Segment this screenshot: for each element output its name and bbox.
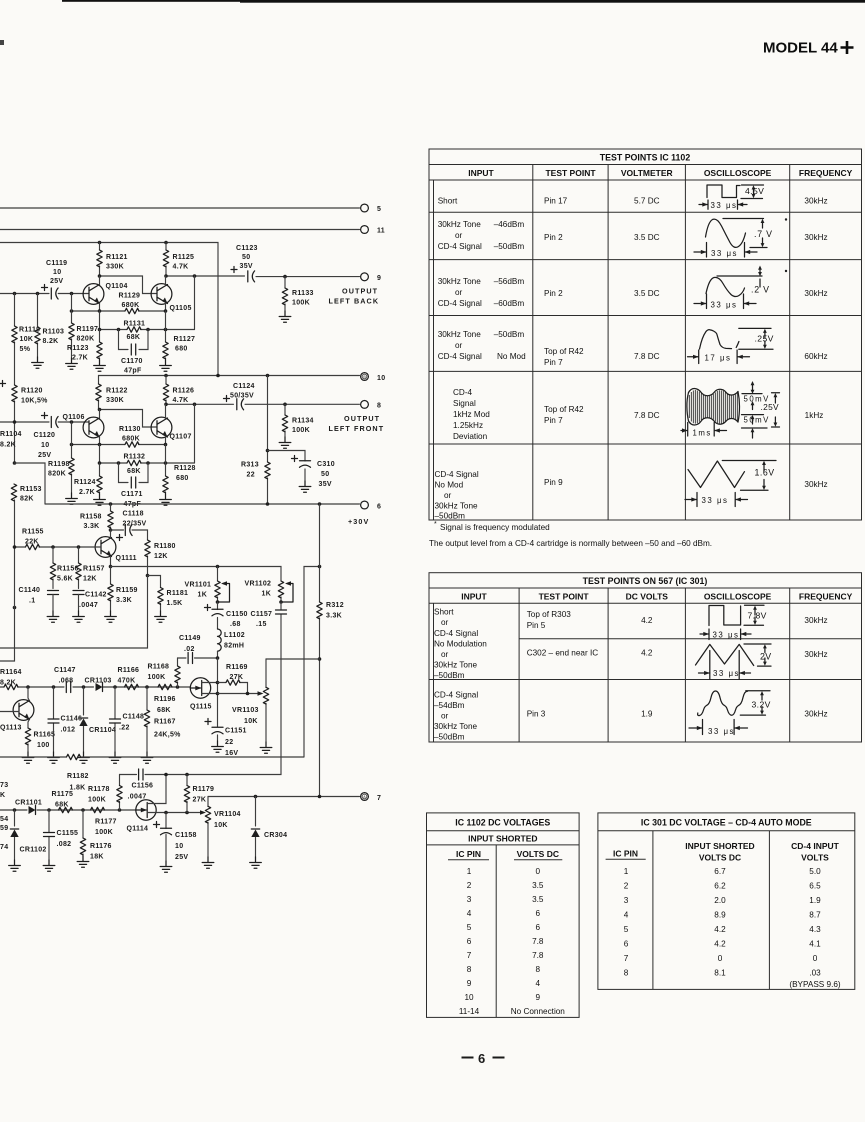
- svg-text:30kHz: 30kHz: [804, 650, 827, 659]
- resistor R1179: [184, 775, 214, 813]
- transistor Q1115 (FET): [190, 658, 218, 727]
- svg-text:VR1103: VR1103: [232, 707, 259, 714]
- svg-text:–60dBm: –60dBm: [494, 299, 525, 308]
- svg-text:Deviation: Deviation: [453, 432, 488, 441]
- svg-text:0: 0: [536, 867, 541, 876]
- ground under R1167: [141, 752, 153, 763]
- wire feedback2 vertical: [194, 404, 196, 463]
- svg-text:2.0: 2.0: [714, 896, 726, 905]
- svg-text:VOLTS DC: VOLTS DC: [517, 849, 559, 859]
- svg-text:4.2: 4.2: [714, 925, 726, 934]
- svg-text:100K: 100K: [148, 674, 166, 681]
- svg-text:Q1114: Q1114: [127, 826, 149, 833]
- svg-text:820K: 820K: [48, 471, 66, 478]
- inductor L1102: [218, 629, 245, 658]
- wire VR1103 to +30V vertical: [266, 658, 320, 660]
- svg-text:LEFT FRONT: LEFT FRONT: [329, 424, 385, 433]
- svg-text:6: 6: [377, 504, 381, 511]
- ground under C1148: [109, 752, 121, 763]
- svg-text:R313: R313: [241, 462, 259, 469]
- svg-text:C1147: C1147: [54, 667, 76, 674]
- node CR1104 tap: [82, 685, 86, 689]
- svg-text:27K: 27K: [230, 674, 244, 681]
- node R313 bottom: [266, 502, 270, 506]
- capacitor C1123: [231, 245, 258, 282]
- ground under CR1102: [9, 860, 21, 871]
- svg-text:17 μs: 17 μs: [705, 353, 732, 362]
- svg-text:No Modulation: No Modulation: [434, 640, 487, 649]
- svg-text:2V: 2V: [760, 652, 772, 662]
- svg-text:3.5: 3.5: [532, 895, 544, 904]
- node VR1103 feed: [318, 657, 322, 661]
- svg-text:R1181: R1181: [167, 590, 189, 597]
- svg-text:Pin 7: Pin 7: [544, 416, 563, 425]
- svg-text:10K,5%: 10K,5%: [21, 398, 48, 405]
- resistor R1153 on left rail: [0, 484, 42, 661]
- svg-text:3.5 DC: 3.5 DC: [634, 233, 660, 242]
- ground under C1151: [212, 741, 224, 752]
- svg-text:25V: 25V: [38, 452, 51, 459]
- node bus1 joins bus2: [216, 374, 220, 378]
- svg-text:Top of R42: Top of R42: [544, 405, 584, 414]
- svg-text:R1120: R1120: [21, 388, 43, 395]
- svg-text:30kHz Tone: 30kHz Tone: [435, 502, 479, 511]
- svg-text:–50dBm: –50dBm: [435, 512, 466, 521]
- svg-text:22: 22: [225, 739, 233, 746]
- svg-text:R1122: R1122: [106, 388, 128, 395]
- svg-text:.012: .012: [61, 727, 76, 734]
- node R1169 tap: [216, 681, 220, 685]
- svg-text:R1175: R1175: [52, 791, 74, 798]
- capacitor C1157: [187, 602, 287, 775]
- potentiometer VR1103: [232, 659, 269, 742]
- resistor R1132 line: [98, 454, 195, 476]
- resistor R1124: [74, 463, 102, 496]
- svg-text:Q1106: Q1106: [63, 414, 85, 421]
- svg-text:100: 100: [37, 742, 50, 749]
- svg-text:CD-4 Signal: CD-4 Signal: [438, 299, 482, 308]
- svg-text:CD-4 Signal: CD-4 Signal: [438, 352, 482, 361]
- svg-text:1K: 1K: [262, 591, 272, 598]
- resistor R1167: [144, 687, 181, 752]
- wire feedback1 vertical: [194, 276, 196, 330]
- svg-text:Pin 2: Pin 2: [544, 233, 563, 242]
- svg-text:Pin 2: Pin 2: [544, 289, 563, 298]
- node on +30V vertical: [318, 565, 322, 569]
- svg-text:–56dBm: –56dBm: [494, 277, 525, 286]
- capacitor C1142: [73, 591, 107, 612]
- node bus1/R1121: [98, 241, 102, 245]
- svg-text:–50dBm: –50dBm: [434, 671, 465, 680]
- node rail/base1: [13, 292, 17, 296]
- svg-text:or: or: [441, 618, 449, 627]
- resistor R1123: [67, 330, 102, 362]
- node feedback tap: [193, 274, 197, 278]
- svg-text:330K: 330K: [106, 397, 124, 404]
- svg-text:60kHz: 60kHz: [804, 352, 827, 361]
- node R1198/base2: [70, 420, 74, 424]
- wire output left-front line: [166, 403, 360, 405]
- svg-text:IC 1102 DC VOLTAGES: IC 1102 DC VOLTAGES: [455, 818, 550, 828]
- resistor R1175: [52, 791, 74, 813]
- svg-text:.082: .082: [57, 841, 72, 848]
- terminal 7: [361, 793, 369, 801]
- svg-text:C1155: C1155: [57, 830, 79, 837]
- svg-text:Signal: Signal: [453, 399, 476, 408]
- diode CR304: [251, 797, 287, 858]
- svg-text:1K: 1K: [198, 592, 208, 599]
- svg-text:25V: 25V: [50, 278, 63, 285]
- row 3 waveform: small sine .2V 33us: [694, 266, 762, 309]
- svg-text:47pF: 47pF: [124, 368, 142, 375]
- svg-text:OUTPUT: OUTPUT: [342, 287, 378, 296]
- node R1179 top: [185, 773, 189, 777]
- terminal 9: [361, 273, 369, 281]
- svg-text:12K: 12K: [154, 553, 168, 560]
- svg-text:C1140: C1140: [19, 587, 41, 594]
- svg-text:6: 6: [536, 909, 541, 918]
- svg-text:IC PIN: IC PIN: [613, 849, 638, 859]
- transistor Q1105: [151, 276, 192, 312]
- svg-text:IC 301 DC VOLTAGE – CD-4 AUTO: IC 301 DC VOLTAGE – CD-4 AUTO MODE: [641, 818, 812, 828]
- svg-text:R1156: R1156: [57, 566, 79, 573]
- node +30V vertical joins: [318, 795, 322, 799]
- ground under R1133: [279, 311, 291, 322]
- svg-text:C1148: C1148: [123, 714, 145, 721]
- node C1146 tap: [52, 685, 56, 689]
- ground under R1103: [32, 357, 44, 368]
- svg-text:IC PIN: IC PIN: [456, 849, 481, 859]
- svg-text:R1132: R1132: [124, 454, 146, 461]
- ground under C1146: [48, 752, 60, 763]
- svg-text:CR1101: CR1101: [15, 800, 42, 807]
- resistor R1177: [91, 807, 117, 836]
- svg-text:10: 10: [41, 442, 49, 449]
- svg-text:30kHz: 30kHz: [804, 233, 827, 242]
- svg-text:or: or: [444, 491, 452, 500]
- svg-text:.22: .22: [119, 725, 130, 732]
- wire Q1111 emitter output line: [111, 567, 282, 582]
- ground under C1158: [160, 861, 172, 872]
- svg-text:.25V: .25V: [761, 402, 780, 412]
- svg-text:.068: .068: [59, 678, 74, 685]
- svg-text:FREQUENCY: FREQUENCY: [799, 592, 853, 602]
- svg-text:CR1104: CR1104: [89, 727, 116, 734]
- svg-text:TEST POINT: TEST POINT: [545, 168, 596, 178]
- svg-text:–54dBm: –54dBm: [434, 701, 465, 710]
- svg-text:330K: 330K: [106, 264, 124, 271]
- svg-text:33 μs: 33 μs: [713, 631, 740, 640]
- svg-text:25V: 25V: [175, 854, 188, 861]
- svg-text:2: 2: [467, 881, 472, 890]
- svg-text:4: 4: [624, 911, 629, 920]
- svg-text:CD-4 Signal: CD-4 Signal: [434, 691, 478, 700]
- svg-text:3.5 DC: 3.5 DC: [634, 289, 660, 298]
- terminal 5: [361, 204, 369, 212]
- svg-text:VOLTMETER: VOLTMETER: [621, 168, 673, 178]
- wire bottom gate line: [0, 809, 136, 811]
- ground under VR1103: [260, 742, 272, 753]
- svg-text:R1129: R1129: [119, 293, 141, 300]
- node collector Q1104: [98, 274, 102, 278]
- svg-text:5.7 DC: 5.7 DC: [634, 197, 660, 206]
- svg-text:OSCILLOSCOPE: OSCILLOSCOPE: [704, 168, 772, 178]
- resistor R1129 with emitter line: [70, 293, 168, 314]
- svg-text:5: 5: [624, 925, 629, 934]
- svg-text:.0047: .0047: [79, 602, 98, 609]
- wire +30V bus to terminal 6: [45, 503, 360, 505]
- svg-text:CD-4 Signal: CD-4 Signal: [438, 242, 482, 251]
- resistor R1133: [282, 277, 313, 311]
- ground under C1142: [73, 611, 85, 622]
- resistor R1159: [108, 567, 138, 612]
- svg-text:68K: 68K: [157, 707, 171, 714]
- svg-text:8.2K: 8.2K: [0, 680, 16, 687]
- svg-text:7: 7: [377, 795, 381, 802]
- svg-text:9: 9: [377, 275, 381, 282]
- page-top scan artifact line: [62, 0, 865, 2]
- svg-text:16V: 16V: [225, 750, 238, 757]
- page number: [462, 1051, 505, 1066]
- svg-text:R1104: R1104: [0, 431, 22, 438]
- ground under R1159: [105, 611, 117, 622]
- svg-text:CR304: CR304: [264, 832, 287, 839]
- svg-text:35V: 35V: [240, 263, 253, 270]
- svg-text:30kHz: 30kHz: [804, 289, 827, 298]
- ground under VR1104: [202, 857, 214, 868]
- svg-text:50: 50: [242, 254, 250, 261]
- svg-text:.03: .03: [809, 969, 821, 978]
- svg-text:.68: .68: [230, 621, 241, 628]
- svg-text:3: 3: [467, 895, 472, 904]
- transistor Q1104: [83, 276, 128, 311]
- wire +30V drop segment: [304, 567, 320, 758]
- svg-text:R1128: R1128: [174, 465, 196, 472]
- svg-text:10K: 10K: [244, 718, 258, 725]
- capacitor C1155: [44, 810, 79, 860]
- svg-text:R1123: R1123: [67, 345, 89, 352]
- row 1 waveform: square 4.5V 33us: [699, 185, 764, 209]
- svg-text:1.6V: 1.6V: [755, 468, 775, 478]
- svg-text:C1120: C1120: [34, 432, 56, 439]
- svg-text:R1159: R1159: [116, 587, 138, 594]
- svg-text:33 μs: 33 μs: [711, 301, 738, 310]
- svg-text:3: 3: [624, 896, 629, 905]
- svg-text:C1156: C1156: [132, 783, 154, 790]
- svg-text:1.25kHz: 1.25kHz: [453, 421, 483, 430]
- svg-text:100K: 100K: [292, 427, 310, 434]
- svg-text:6: 6: [536, 923, 541, 932]
- svg-text:33 μs: 33 μs: [713, 669, 740, 678]
- resistor R1119 on left rail: [12, 294, 41, 386]
- wire rail to terminal 11: [0, 229, 360, 231]
- svg-text:C1124: C1124: [233, 383, 255, 390]
- svg-text:50: 50: [321, 471, 329, 478]
- node VR1101 top: [216, 565, 220, 569]
- resistor R1178: [88, 775, 122, 811]
- table TEST POINTS ON 567 (IC 301): [429, 573, 862, 742]
- svg-text:.15: .15: [256, 621, 267, 628]
- ground under R1165: [22, 752, 34, 763]
- resistor R1180: [145, 540, 176, 576]
- row 4 waveform: clipped .25V 17us: [688, 328, 774, 363]
- svg-text:CD-4 Signal: CD-4 Signal: [434, 629, 478, 638]
- potentiometer VR1102: [245, 581, 294, 604]
- node R1158 top: [109, 502, 113, 506]
- ground under C310: [299, 481, 311, 492]
- svg-text:7: 7: [467, 951, 472, 960]
- diode CR1104: [79, 687, 116, 752]
- svg-text:Signal is frequency modulated: Signal is frequency modulated: [440, 523, 550, 532]
- resistor R1169: [218, 664, 248, 694]
- ground under CR1104: [78, 752, 90, 763]
- svg-text:.02: .02: [184, 646, 195, 653]
- svg-text:68K: 68K: [127, 334, 141, 341]
- row2 waveform: triangle 2V 33us: [696, 644, 772, 679]
- svg-text:or: or: [455, 341, 463, 350]
- svg-text:33 μs: 33 μs: [708, 727, 735, 736]
- capacitor C310: [268, 451, 335, 489]
- capacitor C1148: [110, 687, 145, 752]
- capacitor C1124: [224, 383, 255, 410]
- capacitor C1156: [128, 769, 154, 801]
- ground under R1127: [160, 360, 172, 371]
- svg-text:4.1: 4.1: [809, 940, 821, 949]
- ground under R1134: [279, 437, 291, 448]
- resistor R1122: [96, 376, 128, 410]
- svg-text:Pin 3: Pin 3: [527, 710, 546, 719]
- row 2 waveform: sine .7V 33us: [694, 219, 767, 258]
- svg-text:or: or: [455, 231, 463, 240]
- svg-text:Q1104: Q1104: [106, 283, 128, 290]
- svg-text:No Mod: No Mod: [435, 481, 464, 490]
- svg-text:8: 8: [536, 965, 541, 974]
- svg-text:10K: 10K: [214, 822, 228, 829]
- svg-text:.2 V: .2 V: [751, 285, 770, 295]
- svg-text:74: 74: [0, 844, 8, 851]
- svg-text:8.9: 8.9: [714, 911, 726, 920]
- svg-text:VOLTS: VOLTS: [801, 853, 829, 863]
- wire bus2 (left-front block supply): [99, 375, 360, 377]
- resistor R1125: [163, 243, 194, 277]
- svg-text:1.9: 1.9: [809, 896, 821, 905]
- svg-text:INPUT SHORTED: INPUT SHORTED: [685, 841, 754, 851]
- node R1169 bottom: [246, 692, 250, 696]
- node bus1/R1125: [164, 241, 168, 245]
- svg-text:R1168: R1168: [148, 664, 170, 671]
- node R1167 tap: [145, 685, 149, 689]
- svg-text:11-14: 11-14: [459, 1007, 480, 1016]
- svg-text:73: 73: [0, 782, 8, 789]
- transistor Q1107: [151, 404, 192, 444]
- svg-text:R1153: R1153: [20, 486, 42, 493]
- svg-text:OSCILLOSCOPE: OSCILLOSCOPE: [704, 592, 772, 602]
- transistor Q1113: [0, 687, 34, 732]
- resistor R312 on +30V vertical: [317, 504, 344, 797]
- svg-text:680: 680: [175, 346, 188, 353]
- wire R1180 bottom down-left loop: [0, 576, 148, 649]
- wire R1182 loop line: [0, 754, 304, 791]
- svg-text:820K: 820K: [77, 336, 95, 343]
- svg-text:30kHz: 30kHz: [804, 197, 827, 206]
- svg-text:LEFT BACK: LEFT BACK: [329, 297, 380, 306]
- svg-text:4.2: 4.2: [641, 649, 653, 658]
- capacitor C1150: [205, 602, 248, 629]
- node Q1115 source: [216, 692, 220, 696]
- svg-text:INPUT: INPUT: [461, 592, 487, 602]
- node Q1113 collector: [26, 685, 30, 689]
- svg-text:C1119: C1119: [46, 260, 67, 267]
- svg-text:R1178: R1178: [88, 786, 110, 793]
- svg-text:FREQUENCY: FREQUENCY: [799, 168, 853, 178]
- ground under R1124: [94, 494, 106, 505]
- svg-text:R1198: R1198: [48, 461, 70, 468]
- svg-text:50/35V: 50/35V: [230, 393, 254, 400]
- svg-text:7: 7: [624, 954, 629, 963]
- row1 waveform: square 7.8V 33us: [700, 605, 764, 639]
- svg-text:R1124: R1124: [74, 479, 96, 486]
- svg-text:3.3K: 3.3K: [116, 597, 132, 604]
- svg-text:30kHz Tone: 30kHz Tone: [434, 661, 478, 670]
- svg-text:12K: 12K: [83, 576, 97, 583]
- svg-text:30kHz Tone: 30kHz Tone: [438, 330, 482, 339]
- svg-text:TEST POINTS ON 567 (IC 301): TEST POINTS ON 567 (IC 301): [583, 576, 708, 586]
- svg-text:8.2K: 8.2K: [0, 442, 16, 449]
- svg-text:9: 9: [536, 993, 541, 1002]
- svg-text:Short: Short: [434, 608, 454, 617]
- svg-text:INPUT SHORTED: INPUT SHORTED: [468, 834, 537, 844]
- node rail y607: [13, 606, 17, 610]
- node R1168 tap: [176, 685, 180, 689]
- resistor R1121: [97, 243, 128, 277]
- svg-text:68K: 68K: [127, 468, 141, 475]
- wire bus1 (top supply of left-back block): [0, 243, 218, 376]
- svg-text:1kHz: 1kHz: [805, 411, 824, 420]
- svg-text:5.6K: 5.6K: [57, 576, 73, 583]
- svg-text:2.7K: 2.7K: [79, 489, 95, 496]
- svg-text:35V: 35V: [319, 481, 332, 488]
- svg-text:CR1102: CR1102: [20, 847, 47, 854]
- svg-text:9: 9: [467, 979, 472, 988]
- svg-text:VR1104: VR1104: [214, 811, 241, 818]
- svg-text:R1176: R1176: [90, 843, 112, 850]
- node bus2/R1126: [164, 374, 168, 378]
- node Q1111 collector: [109, 528, 113, 532]
- svg-text:R1157: R1157: [83, 566, 105, 573]
- resistor R1128: [163, 465, 196, 494]
- svg-text:10: 10: [175, 843, 183, 850]
- svg-text:8.1: 8.1: [714, 969, 726, 978]
- svg-text:11: 11: [377, 228, 385, 235]
- node C1148 tap: [113, 685, 117, 689]
- svg-text:–50dBm: –50dBm: [494, 242, 525, 251]
- svg-text:50mV: 50mV: [744, 416, 770, 425]
- svg-text:INPUT: INPUT: [468, 168, 494, 178]
- svg-text:5%: 5%: [20, 346, 31, 353]
- svg-text:3.5: 3.5: [532, 881, 544, 890]
- svg-text:8.7: 8.7: [809, 911, 821, 920]
- svg-text:1: 1: [467, 867, 472, 876]
- ground under R1123: [94, 360, 106, 371]
- svg-text:R1131: R1131: [124, 321, 146, 328]
- svg-text:30kHz: 30kHz: [804, 616, 827, 625]
- svg-text:1ms: 1ms: [693, 429, 712, 438]
- svg-text:68K: 68K: [55, 802, 69, 809]
- terminal 6: [361, 501, 369, 509]
- svg-text:5: 5: [377, 206, 381, 213]
- svg-text:4: 4: [536, 979, 541, 988]
- capacitor C1170: [119, 330, 149, 375]
